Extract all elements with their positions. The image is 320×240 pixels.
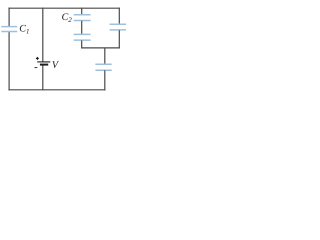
wire middle bus	[81, 47, 120, 49]
capacitor center lower	[74, 34, 91, 40]
wire left branch lower	[8, 32, 10, 91]
wire battery branch upper	[42, 8, 44, 62]
wire right branch lower	[118, 30, 120, 48]
battery minus sign	[35, 67, 38, 69]
battery plus sign	[36, 57, 39, 60]
capacitor bottom-right	[95, 64, 111, 70]
wire bottom bus	[8, 89, 105, 91]
wire center column lower	[81, 40, 83, 48]
wire center column middle	[81, 21, 83, 34]
wire bottom-right stub lower	[104, 70, 106, 90]
wire left branch upper	[8, 8, 10, 27]
label C2	[62, 13, 68, 20]
label V	[52, 61, 59, 68]
label C1	[20, 25, 26, 32]
wire right branch upper	[118, 8, 120, 25]
wire bottom-right stub upper	[104, 48, 106, 64]
capacitor C2	[74, 15, 91, 21]
capacitor right	[110, 24, 127, 30]
wire center column upper	[81, 8, 83, 15]
wire battery branch lower	[42, 65, 44, 90]
capacitor C1	[1, 27, 17, 32]
battery V	[37, 62, 50, 65]
wire top bus	[8, 7, 120, 9]
